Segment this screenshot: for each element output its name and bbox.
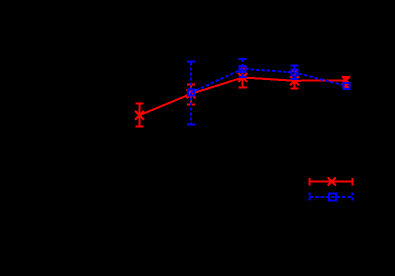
blue errorbar P4 — [290, 65, 298, 79]
red errorbar P2 — [187, 85, 195, 105]
red marker X P4 — [290, 76, 299, 85]
blue marker square P3 — [240, 66, 246, 72]
red marker X P1 — [135, 111, 144, 120]
red errorbar P1 — [136, 103, 144, 126]
red marker X P2 — [186, 89, 195, 98]
blue series dashed line — [191, 69, 346, 93]
blue errorbar P2 — [187, 61, 195, 124]
red marker X P3 — [238, 73, 247, 82]
red errorbar P3 — [239, 68, 247, 87]
legend blue sample — [310, 192, 353, 200]
blue errorbar P3 — [239, 59, 247, 77]
red marker X P5 — [342, 76, 350, 84]
red series line — [140, 78, 346, 116]
blue marker square P5 — [344, 83, 350, 89]
red errorbar P5 — [342, 77, 350, 87]
red errorbar P4 — [291, 71, 299, 89]
legend red sample — [310, 178, 353, 186]
blue marker square P4 — [292, 70, 298, 76]
blue marker square P2 — [188, 90, 194, 96]
